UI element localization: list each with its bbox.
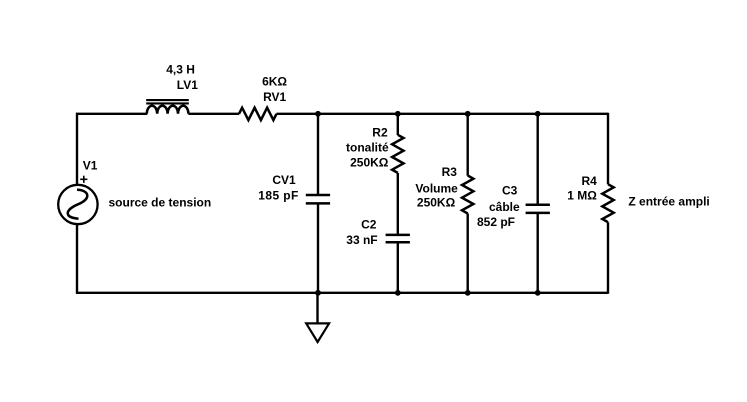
wire left: V1 to bottom — [76, 224, 78, 294]
wire: node D to R4 top — [607, 113, 609, 185]
svg-text:CV1: CV1 — [272, 173, 296, 187]
wire top: node D to R4 — [538, 113, 608, 115]
wire: CV1 to bottom ground node — [317, 203, 319, 292]
wire: R4 to bottom — [607, 222, 609, 294]
resistor R2 — [392, 135, 403, 173]
svg-text:RV1: RV1 — [263, 90, 286, 104]
junction node D top — [535, 111, 541, 117]
wire bottom: node C2 to node D2 — [468, 292, 538, 294]
wire bottom: node D2 to R4 — [538, 292, 608, 294]
svg-text:LV1: LV1 — [177, 78, 198, 92]
svg-text:câble: câble — [489, 200, 520, 214]
junction node C2 bottom — [465, 290, 471, 296]
svg-text:C3: C3 — [502, 184, 518, 198]
wire: C2 to bottom node B2 — [397, 242, 399, 292]
voltage source V1 — [58, 185, 97, 224]
wire: R2 to C2 — [397, 173, 399, 235]
svg-text:R4: R4 — [582, 174, 598, 188]
svg-text:Z entrée ampli: Z entrée ampli — [628, 195, 709, 209]
wire bottom: node B2 to node C2 — [398, 292, 468, 294]
wire top: RV1 to node A — [277, 113, 319, 115]
svg-text:R2: R2 — [372, 125, 388, 139]
svg-text:4,3 H: 4,3 H — [166, 63, 195, 77]
capacitor C2 — [386, 235, 410, 242]
wire top: V1 to LV1 — [76, 113, 147, 115]
wire top: LV1 to RV1 — [188, 113, 239, 115]
svg-text:Volume: Volume — [415, 181, 458, 195]
wire: node C to R3 — [467, 114, 469, 176]
svg-text:250KΩ: 250KΩ — [350, 156, 389, 170]
wire: R3 to bottom node C2 — [467, 214, 469, 293]
junction ground node bottom — [315, 290, 321, 296]
svg-text:tonalité: tonalité — [346, 141, 389, 155]
wire top: node C to node D — [468, 113, 538, 115]
wire: node A to CV1 — [317, 114, 319, 195]
svg-text:C2: C2 — [361, 217, 377, 231]
wire top: node A to node B — [318, 113, 398, 115]
capacitor CV1 — [306, 195, 330, 203]
resistor R4 — [602, 184, 613, 222]
svg-text:250KΩ: 250KΩ — [417, 196, 456, 210]
wire: node D to C3 — [537, 114, 539, 205]
ground — [306, 323, 329, 342]
wire: ground stub — [316, 293, 318, 324]
junction node C top — [465, 111, 471, 117]
svg-text:source de tension: source de tension — [109, 196, 212, 210]
junction node B top — [395, 111, 401, 117]
capacitor C3 — [526, 205, 550, 213]
svg-text:V1: V1 — [83, 159, 98, 173]
svg-text:185 pF: 185 pF — [258, 189, 298, 203]
wire: C3 to bottom node D2 — [537, 213, 539, 293]
wire: node B to R2 — [397, 114, 399, 135]
wire bottom: ground node to node B2 — [318, 292, 398, 294]
junction node B2 bottom — [395, 290, 401, 296]
svg-text:1 MΩ: 1 MΩ — [567, 189, 597, 203]
wire left: top to V1 — [76, 113, 78, 185]
inductor LV1 — [146, 100, 189, 114]
resistor R3 — [462, 176, 473, 214]
junction node A top — [315, 111, 321, 117]
svg-text:R3: R3 — [442, 165, 458, 179]
wire bottom: V1 to ground node — [76, 292, 318, 294]
svg-text:852 pF: 852 pF — [477, 215, 515, 229]
junction node D2 bottom — [535, 290, 541, 296]
svg-text:33 nF: 33 nF — [346, 233, 377, 247]
svg-text:6KΩ: 6KΩ — [262, 74, 287, 88]
plus polarity mark of V1 — [80, 176, 87, 183]
resistor RV1 — [239, 108, 277, 120]
wire top: node B to node C — [398, 113, 468, 115]
